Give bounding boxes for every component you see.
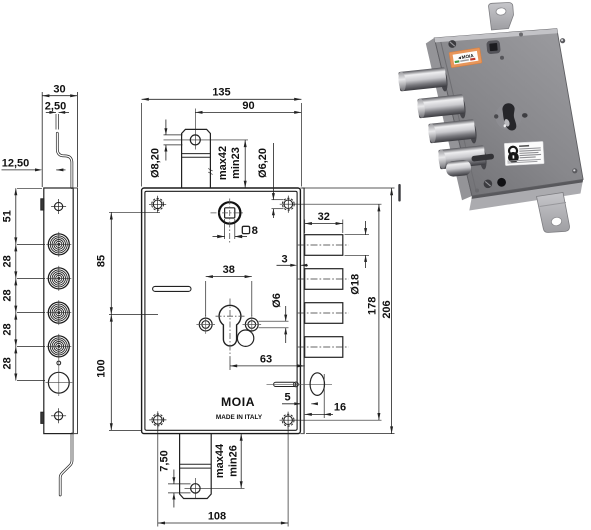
bolt head 2 (side view) (46, 266, 71, 291)
photo: bolt 1 base shadow (439, 69, 448, 92)
svg-text:38: 38 (223, 264, 235, 276)
dim 63 (229, 357, 231, 370)
svg-text:7,50: 7,50 (159, 450, 171, 471)
svg-text:8: 8 (252, 225, 258, 237)
svg-text:135: 135 (212, 87, 230, 99)
dim 30 (42, 95, 77, 97)
dim 135 (141, 103, 143, 187)
photo: corner screw top mid (519, 33, 523, 37)
top bent rod (side view) (57, 133, 72, 187)
dim 206 (302, 187, 395, 189)
dim 30 extension lines (41, 92, 43, 187)
photo: bolt 4 base shadow (478, 147, 487, 170)
bottom tab hole (191, 484, 200, 493)
bolt 3 (front view) (305, 303, 343, 324)
latch circle (side view) (48, 372, 69, 393)
photo: corner screw bottom left of face (475, 189, 479, 193)
bolt head 4 (side view) (46, 334, 71, 359)
svg-text:51: 51 (2, 210, 14, 222)
faceplate edge-on (303, 188, 305, 434)
case screw bottom-right (280, 412, 297, 429)
svg-text:Ø8,20: Ø8,20 (150, 148, 162, 178)
cylinder screw left (196, 315, 215, 334)
side back tab top (41, 199, 44, 210)
dim 38 (205, 281, 207, 316)
left dim arrows (14, 188, 17, 195)
svg-text:85: 85 (95, 255, 107, 267)
side back tab bottom (41, 412, 44, 423)
svg-text:max44: max44 (214, 443, 226, 478)
photo: dot left of keyhole (494, 114, 498, 118)
bottom tab (180, 434, 212, 499)
bolt 1 (front view) (305, 235, 343, 256)
svg-text:63: 63 (260, 353, 272, 365)
svg-text:30: 30 (53, 84, 65, 96)
svg-text:max42: max42 (217, 146, 229, 180)
svg-text:206: 206 (381, 300, 393, 318)
dim max44 min26 (240, 434, 242, 489)
photo: orange label (449, 48, 482, 68)
dim 108 (157, 426, 159, 527)
svg-text:16: 16 (334, 402, 346, 414)
dim 178 (295, 203, 382, 205)
svg-text:12,50: 12,50 (2, 157, 30, 169)
case screw top-left (149, 196, 166, 213)
dim square 8 (224, 219, 226, 239)
photo: screw lower left (484, 180, 493, 189)
svg-text:min26: min26 (228, 445, 240, 477)
top tab (182, 129, 211, 187)
photo: small hole below follower (500, 56, 504, 60)
photo: cover plate seam (441, 41, 477, 193)
cylinder cam lobe (237, 330, 253, 346)
bottom bent rod (side view) (60, 434, 72, 495)
dim 16 (323, 374, 325, 418)
dim 3 (277, 264, 295, 266)
dim diam 6 (259, 320, 289, 322)
faceplate screw top (side view) (51, 199, 66, 214)
photo: bolt 3 (428, 119, 476, 143)
photo: bright screw top right (560, 38, 565, 43)
dim 85 / 100 column (109, 211, 160, 213)
photo: bolt 2 base shadow (457, 96, 466, 119)
photo: body bottom side face (469, 179, 583, 210)
svg-text:Ø6: Ø6 (271, 293, 283, 308)
top tab hole (190, 135, 200, 145)
case inner (145, 191, 297, 430)
photo: body front face (434, 29, 583, 196)
photo: keyhole recess circle (495, 103, 521, 129)
svg-text:108: 108 (208, 511, 226, 523)
case screw bottom-left (149, 411, 166, 428)
svg-text:Ø6,20: Ø6,20 (257, 148, 269, 178)
dim diam 8,20 (164, 134, 183, 136)
cylinder keyhole (219, 305, 241, 346)
svg-text:90: 90 (242, 100, 254, 112)
svg-text:2,50: 2,50 (45, 100, 66, 112)
dim diam 6,20 (272, 199, 284, 201)
photo: dark slot above latch (471, 153, 494, 161)
photo: bolt 2 (417, 94, 465, 118)
latch pin (274, 382, 296, 386)
dim 5 (282, 403, 301, 405)
svg-text:3: 3 (281, 253, 287, 265)
case screw top-right (280, 196, 297, 213)
cylinder screw right (243, 315, 262, 334)
left dim column line (15, 188, 17, 380)
follower square spindle (219, 202, 240, 223)
photo: top mounting bracket (489, 3, 514, 31)
side faceplate front face (73, 188, 77, 434)
photo: bolt 3 base shadow (468, 121, 477, 144)
svg-text:32: 32 (318, 211, 330, 223)
dim 90 (195, 111, 301, 113)
photo: thin rod pin bottom left (398, 184, 400, 202)
small pin (side view) (57, 361, 61, 365)
svg-text:min23: min23 (230, 147, 242, 179)
side case body (44, 188, 73, 434)
svg-text:MOIA: MOIA (221, 395, 255, 409)
dim 7,50 (168, 483, 191, 485)
photo: dot right of keyhole (522, 113, 528, 118)
bolt head 3 (side view) (46, 300, 71, 325)
svg-text:28: 28 (2, 255, 14, 267)
svg-text:28: 28 (2, 289, 14, 301)
photo: screw top-left of face (448, 40, 456, 48)
photo: bottom bracket (537, 193, 570, 233)
svg-text:28: 28 (2, 323, 14, 335)
faceplate screw bottom (side view) (51, 408, 66, 423)
bolt 4 (front view) (305, 337, 343, 358)
svg-text:178: 178 (366, 297, 378, 315)
svg-text:Ø18: Ø18 (349, 274, 361, 295)
photo: black hole bottom center (497, 178, 506, 187)
dim diam 18 (345, 234, 370, 236)
svg-text:5: 5 (285, 391, 291, 403)
dim max42 min23 (244, 140, 246, 188)
top tab break mark (208, 169, 212, 175)
photo: bright screw bottom right (572, 168, 577, 173)
photo: body side face (left, lighter) (426, 38, 472, 200)
photo: bolt 4 (438, 145, 486, 169)
dim 2,50 (55, 114, 57, 130)
svg-text:MADE IN ITALY: MADE IN ITALY (216, 414, 263, 421)
case outer (142, 188, 301, 434)
photo: white label (504, 141, 544, 165)
photo: follower square hole (486, 40, 500, 54)
left dim ext lines (17, 187, 42, 189)
dim 12,50 (2, 169, 36, 171)
photo: bolt 1 (398, 67, 447, 91)
bolt head 1 (side view) (46, 232, 71, 257)
photo: top edge highlight (434, 29, 557, 43)
photo: keyhole dark profile (502, 103, 516, 130)
bolt 2 (front view) (305, 269, 343, 290)
dim 32 (304, 220, 306, 234)
photo: latch cylinder (445, 159, 471, 177)
svg-text:28: 28 (2, 357, 14, 369)
latch bolt oval (front view) (310, 373, 324, 396)
photo: keyhole metal glint (504, 118, 511, 127)
svg-text:100: 100 (95, 359, 107, 377)
pill slot (153, 286, 191, 291)
